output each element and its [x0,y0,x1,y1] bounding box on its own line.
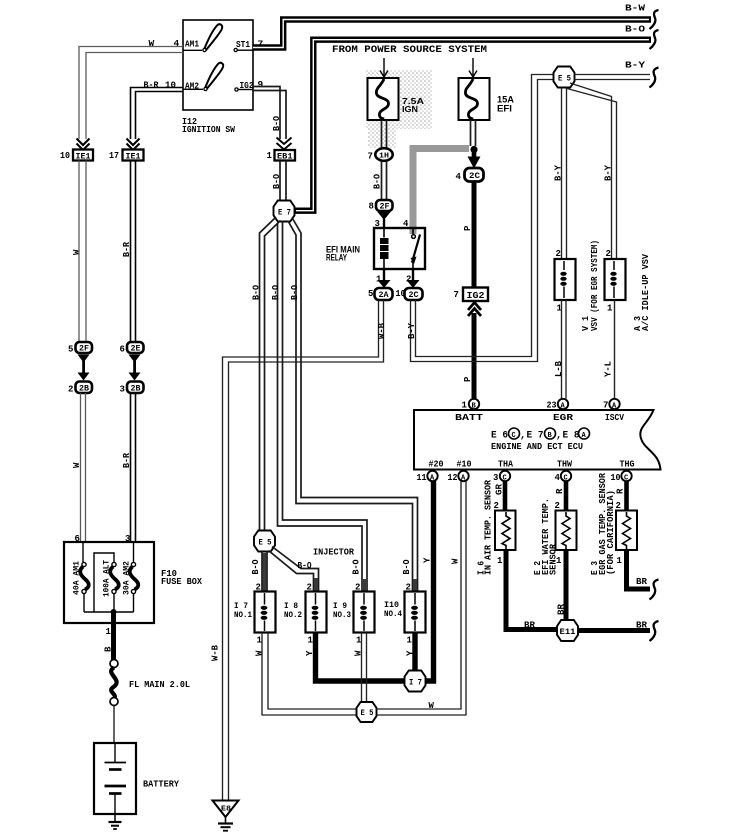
svg-text:E 5: E 5 [361,708,374,718]
label A3 A/C IDLE-UP VSV [633,253,651,331]
svg-text:B-O: B-O [271,284,281,300]
injector pin 1 labels [257,636,413,646]
node E5 octagon mid [254,531,275,552]
svg-text:2B: 2B [79,385,89,394]
svg-text:2C: 2C [409,291,419,300]
VSV A3 box [605,259,626,300]
arrow relay pin 1 to 2A [378,269,391,288]
mating arrows 2E to 2B [129,355,141,381]
svg-text:B-O: B-O [272,115,282,131]
wire W from IE1 to 2F [79,161,86,343]
wire R THW to sensor [564,481,569,511]
ECU pin 23 A EGR [547,399,574,423]
wire BR from E11 to right [578,628,650,633]
injector I9 No.3 [354,592,375,633]
wire B-O from IG2 to EB1 [253,87,286,140]
wire L-B from V1 to ECU EGR [562,300,567,399]
gas temp sensor E3 resistor [616,511,637,551]
svg-text:1: 1 [106,627,112,637]
wire B-O from 1H to 2F [382,161,387,200]
wire B-Y from E5 diagonal to A3 [567,83,617,259]
ECU pin 1 B BATT [455,399,483,423]
wire R THG to sensor [624,481,629,511]
wire W injector No.1 to E5 [262,633,357,716]
svg-text:B-O: B-O [352,559,362,575]
connector 3 2B [120,382,144,395]
svg-text:1H: 1H [379,153,389,161]
EFI MAIN RELAY box [374,228,425,269]
wire BR from E2 to E11 [564,550,569,620]
connector 7 IG2 [454,288,489,302]
svg-text:W: W [429,701,435,711]
wire W E5 to ECU 10 [377,481,467,715]
svg-text:ENGINE AND ECT ECU: ENGINE AND ECT ECU [491,441,583,452]
svg-text:7: 7 [603,401,608,411]
connector arrow into 10 IE1 [77,139,90,151]
svg-text:NO.3: NO.3 [333,610,351,620]
svg-text:1: 1 [497,556,503,566]
wire B from fuse box to fusible link [111,612,116,660]
ignition switch AM1 lever [183,24,222,51]
ECU pin 10 C [611,471,632,483]
svg-text:B-Y: B-Y [554,164,564,181]
svg-text:W-B: W-B [211,644,221,661]
fuse box F10 [64,542,154,623]
grey highlighted wire relay pin4 to EFI fuse node [413,149,469,235]
connector 5 2F [68,342,92,355]
svg-text:E 6: E 6 [491,431,508,442]
ignition switch ST1 contact [237,49,253,51]
svg-text:Y: Y [406,650,416,656]
svg-text:FROM POWER SOURCE SYSTEM: FROM POWER SOURCE SYSTEM [332,45,487,56]
connector 6 2E [120,342,144,355]
svg-text:P: P [463,225,473,231]
node E5 octagon top [554,67,575,88]
svg-text:17: 17 [109,151,119,161]
svg-text:EB1: EB1 [277,152,293,162]
wire B-R from 2B to fuse box pin 3 [131,393,136,542]
wire B-W curly end [650,10,659,29]
connector arrow into 17 IE1 [127,139,140,151]
wire P from IG2 to ECU BATT [472,313,477,399]
svg-text:A/C IDLE-UP VSV: A/C IDLE-UP VSV [641,253,651,331]
svg-text:E 5: E 5 [259,538,272,548]
svg-text:E 7: E 7 [527,431,544,442]
label I9 NO.3 [333,601,351,620]
svg-text:B-O: B-O [272,173,282,189]
connector 7 1H oval [368,148,393,161]
wire from EFI fuse down to junction [471,120,476,146]
arrow 2F to relay pin 3 [378,212,391,228]
svg-text:3: 3 [120,385,125,395]
svg-text:P: P [463,376,473,382]
wire B-O E5 to injector No.1 [262,552,267,592]
node E7 octagon [274,201,295,222]
svg-text:INJECTOR: INJECTOR [313,547,354,558]
injector pin 2 labels [256,583,411,593]
svg-text:2: 2 [556,249,561,259]
air temp sensor I6 resistor [495,511,516,551]
wire B-O rail to E7 [295,40,651,211]
svg-text:B-O: B-O [252,284,262,300]
ECU ENGINE AND ECT ECU box [414,410,661,470]
svg-text:BR: BR [636,620,647,631]
svg-text:Y: Y [305,650,315,656]
svg-text:9: 9 [258,79,264,90]
svg-text:,: , [556,431,562,442]
svg-text:THG: THG [620,459,635,470]
svg-text:5: 5 [68,345,73,355]
svg-text:11: 11 [417,473,428,483]
svg-text:B-O: B-O [290,284,300,300]
svg-text:7: 7 [454,290,459,300]
fuse 15A EFI [459,78,490,120]
arrow into 7.5A IGN fuse [380,58,388,77]
svg-text:BATT: BATT [455,412,483,423]
label E3 EGR GAS TEMP SENSOR FOR CARIFORNIA [590,472,616,575]
svg-text:FUSE BOX: FUSE BOX [161,576,202,587]
svg-text:R: R [616,488,626,494]
label I10 NO.4 [384,600,402,619]
svg-text:1: 1 [617,556,623,566]
wire from fusible link to battery [113,706,115,744]
svg-text:NO.2: NO.2 [284,610,302,620]
svg-text:12: 12 [448,473,458,483]
ECU title E6 C E7 B E8 A [491,428,590,442]
svg-text:3: 3 [493,473,498,483]
svg-text:1: 1 [407,636,413,646]
svg-text:W: W [451,558,461,564]
svg-text:2A: 2A [379,291,389,300]
wire from IGN fuse to 1H [382,120,387,148]
node I7 octagon [405,671,426,692]
connector 5 2A [368,288,393,300]
svg-text:40A AM1: 40A AM1 [73,561,82,595]
fuse box internal wiring [83,542,134,612]
svg-text:E11: E11 [560,627,576,637]
svg-text:B-O: B-O [251,559,261,575]
label E2 EFI WATER TEMP SENSOR [533,498,559,575]
label EFI MAIN RELAY [326,245,360,264]
arrow junction to 4 2C [468,149,481,169]
svg-text:E 7: E 7 [278,208,291,218]
injector I10 No.4 [405,592,426,633]
ignition switch I12 box [183,20,254,110]
injector I7 No.1 [255,592,276,633]
ECU bottom pin labels [429,459,635,470]
svg-text:W: W [72,462,82,468]
svg-text:2E: 2E [131,345,141,354]
junction node dot [470,146,477,153]
svg-text:IGN: IGN [402,104,418,114]
connector 10 2C [396,288,423,300]
relay switch [411,228,421,269]
ground symbol below E8 [218,817,233,831]
svg-text:4: 4 [174,38,180,49]
dark wire stubs at injector pin 2 [265,553,416,591]
label I7 NO.1 [234,601,252,620]
fuse 7.5A IGN [368,78,399,120]
wire W from AM1 to IE1 [79,47,183,140]
label 7.5A IGN [402,96,424,114]
svg-text:THA: THA [498,459,513,470]
label F10 FUSE BOX [161,568,202,587]
svg-text:1: 1 [607,304,613,314]
svg-text:IG2: IG2 [467,290,485,301]
svg-text:7: 7 [368,152,373,162]
svg-text:B-O: B-O [373,173,383,189]
fusible link FL MAIN 2.0L [110,660,118,706]
wire W-B from 2A to E8 run [223,300,384,801]
svg-text:#10: #10 [457,459,472,470]
svg-text:W: W [354,650,364,656]
svg-text:THW: THW [557,459,572,470]
wire Y-L from A3 to ECU ISCV [614,300,616,399]
svg-text:4: 4 [555,473,561,483]
battery ground [109,814,122,829]
svg-text:EFI: EFI [497,104,512,114]
stipple highlight around IGN fuse [366,70,432,129]
svg-text:AM1: AM1 [185,39,199,50]
svg-text:IE1: IE1 [76,152,91,162]
svg-text:W: W [72,249,82,255]
VSV V1 box [555,259,576,300]
injector I8 No.2 [306,592,327,633]
svg-text:B-O: B-O [298,561,313,571]
mating arrows 2F to 2B [78,355,90,381]
svg-text:B-W: B-W [625,3,645,14]
connector 10 IE1 [60,150,93,162]
svg-text:EGR: EGR [553,412,573,423]
ECU pin 12 A [448,471,469,483]
wire W injector No.3 to E5 [362,633,367,702]
wire BR E3 curly end [650,580,659,600]
ECU pin 7 A ISCV [603,399,624,423]
svg-text:100A ALT: 100A ALT [103,560,112,597]
svg-text:IGNITION SW: IGNITION SW [182,124,235,135]
svg-text:B-O: B-O [625,24,645,35]
svg-text:SENSOR: SENSOR [549,543,559,575]
ECU pin 3 C [493,471,510,483]
svg-text:Y-L: Y-L [604,361,614,377]
svg-text:2F: 2F [79,345,89,354]
svg-text:B-Y: B-Y [604,164,614,181]
svg-text:30A AM2: 30A AM2 [123,561,132,595]
svg-text:E 8: E 8 [563,431,580,442]
connector 4 2C [456,168,484,182]
wire Y injector No.2 to I7 node [316,633,405,682]
svg-text:8: 8 [369,202,374,212]
fuse 40A AM1 [73,561,89,595]
svg-text:B-R: B-R [144,80,159,91]
svg-text:ST1: ST1 [236,39,250,50]
svg-text:B-O: B-O [402,559,412,575]
svg-text:2F: 2F [380,203,390,212]
svg-text:2: 2 [68,385,73,395]
svg-text:IE1: IE1 [126,152,141,162]
connector 8 2F [369,200,393,212]
svg-text:(FOR CARIFORNIA): (FOR CARIFORNIA) [606,490,616,575]
svg-text:FL MAIN 2.0L: FL MAIN 2.0L [129,679,190,690]
fuse box output junction [111,609,117,615]
svg-text:10: 10 [611,473,621,483]
svg-text:1: 1 [267,151,273,161]
node E11 octagon [557,620,578,641]
wire BR from E3 to right [627,550,651,589]
wire B-O E7 to injector No.4 [288,218,418,592]
wire GR THA to sensor [503,481,508,511]
svg-text:IN AIR TEMP. SENSOR: IN AIR TEMP. SENSOR [484,479,494,575]
label I8 NO.2 [284,601,302,620]
ignition switch IG2 contact [238,89,253,91]
svg-text:2B: 2B [131,385,141,394]
ignition switch AM2 lever [183,63,223,91]
wire B-O from EB1 to E7 [280,161,286,202]
arrow relay pin 2 to 2C [407,269,420,288]
wire P from 2C to IG2 [472,182,477,288]
svg-text:W: W [149,38,155,49]
svg-text:BATTERY: BATTERY [143,779,179,790]
svg-text:B-Y: B-Y [407,322,417,339]
svg-text:BR: BR [636,576,647,587]
svg-text:ISCV: ISCV [605,412,624,423]
svg-text:B-R: B-R [122,452,132,468]
wire Y I7 node to ECU 20 [426,481,434,681]
wire B-Y from E5 down to V1 [562,88,567,260]
svg-text:1: 1 [462,401,468,411]
fuse 30A AM2 [123,561,139,595]
svg-text:,: , [520,431,526,442]
svg-text:4: 4 [456,172,462,182]
wire BR from I6 to E11 [506,550,558,630]
wire B-Y from 2C to E5 [411,75,554,362]
connector 2 2B [68,382,92,395]
svg-text:5: 5 [368,289,373,299]
connector arrows below IG2 [468,303,481,317]
ground E8 triangle [213,801,239,818]
svg-text:B-Y: B-Y [625,60,645,71]
svg-text:R: R [555,488,565,494]
svg-text:VSV (FOR EGR SYSTEM): VSV (FOR EGR SYSTEM) [590,240,600,331]
wire Y injector No.4 to I7 node [412,633,417,672]
ECU pin 11 A [417,471,438,483]
svg-text:2C: 2C [469,171,480,181]
svg-text:C: C [512,432,516,440]
svg-text:NO.1: NO.1 [234,610,252,620]
svg-text:B: B [104,646,114,652]
wire B-R from AM2 to IE1 [131,88,184,140]
label I6 IN AIR TEMP SENSOR [477,479,494,575]
wire B-O E7 to injector No.3 [278,221,368,592]
relay coil [380,228,389,269]
wire B-W rail from ST1 [253,20,651,48]
svg-text:#20: #20 [429,459,444,470]
fuse 100A ALT [103,560,119,597]
svg-text:L-B: L-B [554,360,564,377]
svg-text:W-B: W-B [377,322,387,339]
svg-text:I 7: I 7 [409,678,422,688]
wire B-R from IE1 to 2E [131,161,136,343]
svg-text:GR: GR [495,483,505,495]
svg-text:BR: BR [557,603,567,615]
svg-text:E 5: E 5 [558,74,571,84]
label 15A EFI [497,95,515,114]
battery box [94,743,136,814]
svg-text:RELAY: RELAY [326,253,347,264]
node E5 octagon bottom [357,702,377,722]
connector 1 EB1 [267,150,296,162]
wire B-Y from E5 to right [575,75,651,80]
connector arrow into EB1 [277,138,292,150]
label V1 VSV FOR EGR SYSTEM [581,240,600,331]
wire BR E11 curly end [650,621,659,641]
svg-text:NO.4: NO.4 [384,609,402,619]
wire W from 2B to fuse box pin 6 [81,393,86,542]
wire B-O curly end [650,30,659,49]
ECU pin 4 C [555,471,572,483]
battery cells [105,743,127,814]
svg-text:23: 23 [547,401,557,411]
svg-text:E8: E8 [221,806,231,814]
wire B-O E5 to injector No.2 [269,547,319,592]
svg-text:10: 10 [165,80,176,91]
svg-text:1: 1 [308,636,314,646]
arrow into 15A EFI fuse [469,58,477,77]
wire B-Y curly end [650,68,659,88]
svg-text:W: W [255,650,265,656]
svg-text:10: 10 [60,151,70,161]
svg-text:2: 2 [606,249,611,259]
label I12 IGNITION SW [182,116,235,135]
water temp sensor E2 resistor [556,511,577,551]
svg-text:6: 6 [120,345,125,355]
connector 17 IE1 [109,150,144,162]
wire B-O E7 to E5 mid [260,217,281,531]
svg-text:BR: BR [524,620,535,631]
